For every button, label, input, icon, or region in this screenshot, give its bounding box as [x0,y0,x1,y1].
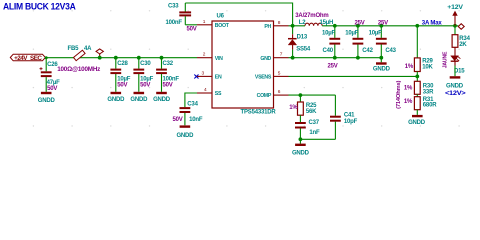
wire R29 drop [416,26,418,58]
wire PH to L2 [289,25,306,27]
svg-text:<12V>: <12V> [445,91,466,97]
svg-text:50V: 50V [140,82,150,88]
ground under C30 [130,93,148,103]
wire C41 drop [334,95,336,116]
svg-text:GNDD: GNDD [446,83,464,89]
unconnected flag diamond [458,24,464,30]
wire R34 to D15 [454,47,456,56]
ground under C26 [38,93,56,104]
svg-text:TPS54331DR: TPS54331DR [241,110,277,116]
resistor R29 [405,58,434,72]
svg-text:10µF: 10µF [345,30,359,36]
svg-text:50V: 50V [187,26,197,32]
inductor L2 [295,13,333,26]
pin 7 GND [260,52,288,62]
svg-text:(714Ohms): (714Ohms) [396,80,402,108]
svg-text:56K: 56K [306,109,317,115]
svg-text:50V: 50V [163,82,173,88]
svg-text:BOOT: BOOT [215,23,230,29]
pin 3 EN [197,70,222,80]
svg-text:C28: C28 [117,61,128,67]
capacitor C40 [322,24,340,70]
ground under R31 [408,110,426,127]
svg-text:PH: PH [264,24,271,30]
svg-text:D13: D13 [297,35,308,41]
capacitor C32 [156,61,179,89]
ground output caps [373,58,391,73]
op-amp U6 TPS54331 body [212,14,276,116]
node C26 junction [45,56,48,59]
svg-text:100Ω@100MHz: 100Ω@100MHz [57,66,100,73]
svg-text:GND: GND [260,56,271,62]
wire C26 to ground [45,77,47,92]
node R29 top [415,24,419,28]
wire C41 bottom to node [300,138,335,140]
svg-text:SS: SS [215,91,222,97]
svg-text:GNDD: GNDD [408,120,426,126]
wire C26 drop [45,58,47,72]
svg-text:3: 3 [202,70,205,76]
wire COMP [289,94,336,96]
svg-text:680R: 680R [423,103,437,109]
wire BOOT to pin 1 [185,24,197,26]
svg-text:1: 1 [203,19,206,25]
ground under C28 [107,93,125,103]
svg-text:50V: 50V [117,82,127,88]
svg-text:+12V: +12V [447,4,463,11]
svg-text:3A/27mOhm: 3A/27mOhm [295,13,328,19]
svg-text:L2: L2 [299,20,306,26]
svg-text:10nF: 10nF [189,117,203,123]
svg-text:C43: C43 [385,48,396,54]
svg-text:50V: 50V [173,117,183,123]
power +12V [447,4,463,26]
svg-text:1nF: 1nF [309,130,320,136]
capacitor C43 [369,20,397,59]
wire C30 drop [138,58,140,69]
wire R25 to C37 [299,115,301,122]
svg-text:C30: C30 [140,61,151,67]
svg-text:C33: C33 [168,4,179,10]
pin 2 VIN [197,52,223,62]
diode D13 SS54 [288,34,311,52]
capacitor C42 [345,20,373,59]
wire VSENS [289,75,418,77]
capacitor C41 [330,113,358,140]
wire R25 top [299,95,301,102]
node D13 gnd [291,56,295,60]
svg-text:8: 8 [278,20,281,26]
wire GND rail [289,57,382,59]
wire bootstrap top rail [185,3,292,26]
capacitor C26 [40,62,61,92]
capacitor C34 [173,101,203,125]
svg-text:D15: D15 [454,68,465,74]
svg-text:FB5: FB5 [68,46,80,52]
svg-text:C40: C40 [323,48,334,54]
svg-text:3A Max: 3A Max [422,20,443,26]
svg-text:EN: EN [215,75,222,81]
capacitor C37 [295,120,320,139]
wire R30-R31 [416,94,418,96]
svg-text:C42: C42 [362,48,373,54]
svg-text:7: 7 [280,52,283,58]
node C32 [160,56,164,60]
wire R29 bottom [416,72,418,77]
svg-text:6: 6 [278,89,281,95]
wire D13 bottom [292,50,294,58]
wire R34 top [454,26,456,35]
svg-text:50V: 50V [47,86,57,92]
resistor R30 [404,81,434,95]
LED D15 [443,51,466,74]
wire SS to C34 [185,93,197,107]
net tie diamond [96,49,103,58]
svg-text:33R: 33R [423,89,434,95]
ground under C37 [292,139,310,156]
svg-text:GNDD: GNDD [38,98,56,104]
ground under C32 [153,93,171,103]
node COMP [299,93,303,97]
svg-text:COMP: COMP [257,93,272,99]
resistor R31 [396,80,437,109]
no-connect X on EN [194,75,198,79]
svg-text:GNDD: GNDD [292,150,310,156]
svg-text:VSENS: VSENS [255,75,272,81]
resistor R25 [289,102,317,115]
svg-text:4: 4 [204,87,207,93]
svg-text:2: 2 [203,52,206,58]
svg-text:1%: 1% [289,105,298,111]
capacitor C28 [110,61,130,89]
svg-text:1%: 1% [405,64,414,70]
svg-text:1%: 1% [404,86,413,92]
svg-text:100nF: 100nF [166,20,183,26]
capacitor C30 [133,61,153,89]
global label +24V_SEC [10,54,45,62]
svg-text:4A: 4A [84,46,92,52]
wire D15 to gnd [454,61,456,65]
svg-text:25V: 25V [328,63,338,69]
svg-text:25V: 25V [355,20,365,26]
svg-text:C32: C32 [163,61,174,67]
node after FB5 [98,56,102,60]
svg-text:10K: 10K [422,64,433,70]
svg-text:25V: 25V [378,20,388,26]
svg-text:10µF: 10µF [322,30,336,36]
node C30 [137,56,141,60]
wire output rail [322,25,458,27]
svg-text:VIN: VIN [215,56,223,62]
wire C32 drop [161,58,163,69]
wire input rail [45,57,197,59]
node +12V [453,24,457,28]
svg-text:GNDD: GNDD [373,66,391,72]
resistor R34 [452,35,470,48]
svg-text:GNDD: GNDD [107,97,125,103]
grid dots (decorative) [33,10,460,127]
svg-text:ALIM BUCK 12V3A: ALIM BUCK 12V3A [3,2,76,13]
pin 1 BOOT [197,19,230,29]
svg-text:2K: 2K [459,42,467,48]
svg-text:C41: C41 [344,113,355,119]
wire D13 top [292,26,294,34]
svg-text:10µF: 10µF [369,30,383,36]
wire C28 drop [115,58,117,69]
svg-text:JAUNE: JAUNE [443,51,449,68]
svg-text:1%: 1% [404,99,413,105]
node VSENS [415,75,419,79]
pin 5 VSENS [255,70,289,80]
node C37 bottom [299,137,303,141]
svg-text:C37: C37 [309,120,320,126]
wire R30 top [416,76,418,81]
svg-text:5: 5 [278,70,281,76]
pin 6 COMP [257,89,289,99]
svg-text:GNDD: GNDD [176,133,194,139]
ferrite bead FB5 [57,46,100,73]
node C28 [114,56,118,60]
pin 4 SS [197,87,222,97]
pin 8 PH [264,20,288,30]
svg-text:U6: U6 [217,14,225,20]
svg-text:15µH: 15µH [320,20,334,26]
ground under C34 [176,127,194,139]
svg-text:C34: C34 [187,101,198,107]
svg-text:SS54: SS54 [296,47,311,53]
svg-text:+24V_SEC: +24V_SEC [14,55,42,62]
svg-text:GNDD: GNDD [130,97,148,103]
ground under D15 [445,77,466,97]
capacitor C33 bootstrap [166,3,197,32]
svg-text:GNDD: GNDD [153,97,171,103]
node PH [291,24,295,28]
svg-text:10pF: 10pF [344,119,358,125]
